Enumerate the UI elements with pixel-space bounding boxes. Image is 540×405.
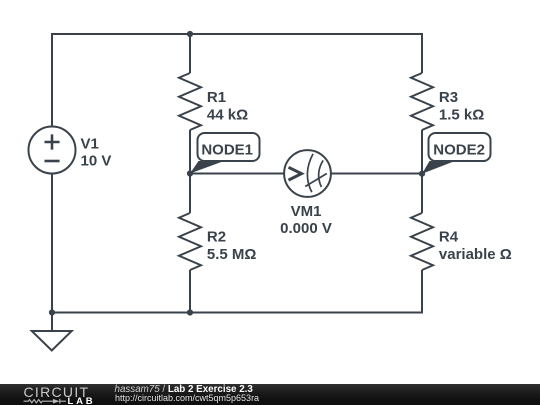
wire NODE1 to voltmeter	[190, 173, 284, 175]
wire bottom horizontal left segment	[52, 312, 190, 314]
svg-text:R2: R2	[207, 229, 226, 246]
svg-text:NODE2: NODE2	[433, 142, 485, 159]
voltage source V1 circle	[29, 127, 76, 174]
svg-text:R4: R4	[439, 229, 459, 246]
wire NODE1 to R2	[189, 174, 191, 214]
CircuitLab logo wordmark LAB	[68, 397, 96, 405]
wire top horizontal right segment	[190, 33, 422, 35]
junction node bottom of R2 branch	[187, 309, 193, 315]
voltmeter chevron	[289, 167, 302, 180]
resistor R3 zigzag	[411, 73, 433, 130]
svg-text:R1: R1	[207, 89, 226, 106]
wire NODE2 to R4	[421, 174, 423, 214]
footer url line	[115, 394, 259, 404]
svg-text:V1: V1	[81, 135, 99, 152]
svg-text:10 V: 10 V	[81, 152, 112, 169]
resistor R2 zigzag	[179, 213, 201, 270]
wire bottom horizontal right segment	[190, 312, 422, 314]
junction node NODE2	[419, 171, 425, 177]
wire right vertical above R3	[421, 33, 423, 73]
svg-text:0.000 V: 0.000 V	[280, 220, 332, 237]
svg-text:44 kΩ: 44 kΩ	[207, 107, 248, 124]
V1 plus sign	[45, 134, 60, 149]
svg-text:1.5 kΩ: 1.5 kΩ	[439, 107, 484, 124]
wire R3 to NODE2	[421, 130, 423, 174]
svg-text:5.5 MΩ: 5.5 MΩ	[207, 246, 257, 263]
svg-text:R3: R3	[439, 89, 458, 106]
wire voltmeter to NODE2	[331, 173, 423, 175]
footer bar	[0, 384, 540, 405]
footer title line	[115, 385, 253, 395]
junction node top of R1 branch	[187, 31, 193, 37]
voltmeter gauge arc inner	[319, 160, 323, 187]
wire R2 to bottom	[189, 270, 191, 313]
wire left vertical lower	[51, 174, 53, 313]
NODE2 callout box	[429, 133, 491, 161]
resistor R1 zigzag	[179, 73, 201, 130]
svg-text:VM1: VM1	[291, 203, 322, 220]
NODE1 callout box	[198, 133, 260, 161]
wire R1 to NODE1	[189, 130, 191, 174]
junction node bottom left	[49, 309, 55, 315]
voltmeter VM1 circle	[284, 150, 331, 197]
CircuitLab logo wordmark CIRCUIT	[24, 385, 90, 399]
wire left vertical upper	[51, 33, 53, 127]
NODE1 callout tail	[190, 161, 224, 174]
V1 minus sign	[45, 160, 60, 163]
voltmeter gauge arc outer	[307, 154, 313, 192]
wire middle vertical above R1	[189, 34, 191, 73]
wire top horizontal left segment	[52, 33, 190, 35]
NODE2 callout tail	[422, 161, 455, 174]
svg-text:variable Ω: variable Ω	[439, 246, 512, 263]
voltmeter needle	[305, 174, 327, 187]
junction node NODE1	[187, 170, 193, 176]
svg-text:NODE1: NODE1	[201, 142, 253, 159]
wire R4 to bottom	[421, 270, 423, 314]
ground symbol	[32, 313, 72, 351]
CircuitLab logo squiggle (resistor + diode)	[23, 398, 67, 405]
resistor R4 zigzag	[411, 213, 433, 270]
